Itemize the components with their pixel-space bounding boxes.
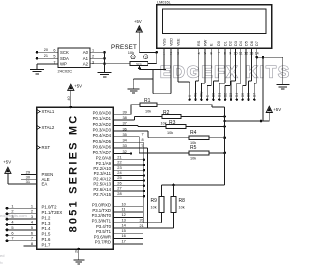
wire P0.6 down	[113, 147, 148, 149]
svg-text:D7: D7	[253, 93, 257, 97]
svg-text:P2.7/A15: P2.7/A15	[93, 192, 111, 197]
wire P2.5	[113, 185, 144, 187]
wire A1	[90, 57, 105, 59]
svg-text:2: 2	[31, 209, 33, 214]
svg-text:24C02C: 24C02C	[58, 69, 73, 74]
svg-text:R3: R3	[169, 120, 176, 126]
svg-text:16: 16	[122, 233, 126, 238]
wire VEE drop	[177, 48, 179, 82]
wire LCD D2 drop	[229, 48, 231, 85]
pot pin 1 circled	[131, 55, 135, 59]
svg-text:P1.2: P1.2	[42, 215, 51, 220]
svg-text:3: 3	[145, 55, 147, 59]
svg-text:35: 35	[123, 132, 127, 137]
wire P1.2	[7, 218, 37, 220]
wire P3.1	[113, 211, 143, 213]
svg-text:R1: R1	[144, 98, 151, 104]
svg-text:1: 1	[11, 203, 13, 208]
svg-text:10k: 10k	[145, 109, 151, 113]
svg-text:15: 15	[122, 228, 126, 233]
svg-text:E: E	[205, 95, 209, 97]
svg-text:P0.4/AD4: P0.4/AD4	[93, 133, 112, 138]
svg-text:EDGEFX KITS: EDGEFX KITS	[160, 64, 291, 82]
ground A pins	[98, 72, 112, 74]
svg-text:9: 9	[142, 143, 144, 147]
wire A0	[90, 51, 105, 53]
svg-text:D2: D2	[229, 41, 233, 46]
svg-text:33: 33	[123, 143, 127, 148]
svg-text:P0.7/AD7: P0.7/AD7	[93, 150, 112, 155]
wire P2.2	[113, 169, 144, 171]
wire A-common vertical	[104, 52, 106, 72]
wire LCD D5 drop	[245, 48, 247, 85]
bus vertical right	[224, 107, 226, 185]
svg-text:P1.4: P1.4	[42, 226, 51, 231]
svg-text:D2: D2	[223, 93, 227, 97]
wire pot right	[148, 63, 157, 65]
wire P1.0	[7, 207, 37, 209]
svg-text:7: 7	[11, 236, 13, 241]
svg-text:8: 8	[31, 241, 33, 246]
wire PSEN	[21, 174, 37, 176]
wire LCD D3 drop	[235, 48, 237, 81]
svg-text:RST: RST	[42, 145, 51, 150]
svg-text:A2: A2	[83, 62, 89, 67]
svg-text:28: 28	[117, 191, 121, 196]
wire ALE	[21, 178, 37, 180]
svg-text:20: 20	[44, 48, 48, 52]
svg-text:D0: D0	[217, 41, 221, 46]
wire R9 top	[161, 185, 163, 196]
svg-text:31: 31	[26, 179, 30, 184]
svg-text:XTAL1: XTAL1	[42, 109, 55, 114]
svg-text:10k: 10k	[151, 206, 157, 210]
svg-text:39: 39	[123, 109, 127, 114]
wire P2.3	[113, 174, 144, 176]
wire WP to ground	[37, 63, 58, 65]
svg-text:RW: RW	[203, 39, 207, 46]
svg-text:8051 SERIES MC: 8051 SERIES MC	[68, 114, 80, 233]
svg-text:7: 7	[142, 132, 144, 136]
wire P0.7 stub	[113, 153, 131, 155]
wire D7 node	[255, 56, 258, 59]
svg-text:21: 21	[140, 224, 144, 228]
wire R8 top	[173, 185, 175, 196]
wire P3.5	[113, 232, 143, 234]
wire VDD down	[170, 48, 172, 94]
wire bus to R9 R8	[162, 184, 225, 186]
clock arrow	[37, 146, 40, 150]
wire to top right ground	[263, 56, 283, 58]
wire P1.7	[24, 245, 37, 247]
wire P2.1	[113, 164, 144, 166]
svg-text:P3.5/T1: P3.5/T1	[96, 229, 112, 234]
svg-text:12: 12	[122, 212, 126, 217]
svg-text:11: 11	[122, 207, 126, 212]
wire R8 bottom	[173, 213, 175, 229]
svg-text:38: 38	[123, 115, 127, 120]
svg-text:RS: RS	[197, 40, 201, 46]
pot body	[130, 62, 148, 66]
wire LCD D0 drop	[218, 48, 220, 81]
svg-text:R2: R2	[163, 110, 170, 116]
wire wiper to VSS line	[140, 69, 167, 71]
ground below 8051	[73, 259, 84, 261]
svg-text:P0.2/AD2: P0.2/AD2	[93, 122, 112, 127]
svg-text:D1: D1	[218, 93, 222, 97]
wire R2 to bus	[181, 116, 225, 118]
svg-text:R5: R5	[190, 145, 197, 151]
svg-text:D4: D4	[235, 93, 239, 97]
svg-text:6: 6	[31, 230, 33, 235]
op 8051 U1 body	[37, 107, 114, 249]
wire EA	[21, 183, 37, 185]
wire P2.0	[113, 159, 144, 161]
wire P0.3 to R4	[113, 130, 148, 132]
eeprom U2 24C02C body	[58, 48, 90, 68]
wire P3.2	[113, 216, 143, 218]
svg-text:10k: 10k	[179, 206, 185, 210]
LCD LM016L body	[157, 5, 272, 49]
svg-text:P0.3/AD3: P0.3/AD3	[93, 128, 112, 133]
wire LCD D7 drop	[256, 48, 258, 83]
svg-text:5: 5	[31, 225, 33, 230]
wire P1.6	[7, 240, 37, 242]
svg-text:P0.1/AD1: P0.1/AD1	[93, 116, 112, 121]
wire LCD RW drop	[204, 48, 206, 83]
svg-text:D7: D7	[255, 41, 259, 46]
wire P0.0 to R1	[113, 113, 131, 115]
wire P0.5 down	[113, 141, 143, 143]
svg-text:P0.0/AD0: P0.0/AD0	[93, 111, 112, 116]
svg-text:VEE: VEE	[176, 38, 180, 46]
svg-text:P3.7/RD: P3.7/RD	[95, 240, 111, 245]
svg-text:6: 6	[11, 230, 13, 235]
wire P3.0	[113, 206, 143, 208]
wire VSS down	[163, 48, 165, 70]
wire P1.4	[7, 229, 37, 231]
svg-text:D6: D6	[247, 93, 251, 97]
clock arrow	[37, 110, 40, 114]
wire SCK	[37, 51, 58, 53]
svg-text:D5: D5	[241, 93, 245, 97]
svg-text:A0: A0	[83, 50, 89, 55]
svg-text:XTAL2: XTAL2	[42, 125, 55, 130]
svg-text:D0: D0	[212, 93, 216, 97]
wire LCD D6 drop	[250, 48, 252, 81]
svg-text:P1.0/T2: P1.0/T2	[42, 205, 58, 210]
svg-text:ed: ed	[0, 253, 4, 258]
svg-text:+5V: +5V	[273, 107, 281, 112]
svg-text:D4: D4	[239, 41, 243, 46]
svg-text:P1.3: P1.3	[42, 221, 51, 226]
svg-text:VDD: VDD	[169, 38, 173, 46]
wire P2.6	[113, 190, 144, 192]
wire P3.6	[113, 238, 143, 240]
svg-text:D6: D6	[250, 41, 254, 46]
wire to VDD bottom	[153, 93, 171, 95]
svg-text:D3: D3	[229, 93, 233, 97]
wire P0.2 to R3	[113, 125, 138, 127]
wire SDA	[37, 57, 58, 59]
svg-text:2: 2	[11, 209, 13, 214]
svg-text:EA: EA	[42, 182, 48, 187]
svg-text:R9: R9	[151, 198, 158, 204]
wire R9 bottom	[161, 213, 163, 223]
pot wiper arrow	[138, 66, 142, 70]
svg-text:fx: fx	[0, 261, 3, 265]
wire P3.4 to R8	[113, 227, 174, 229]
wire LCD RS drop	[198, 48, 200, 81]
svg-text:WP: WP	[60, 62, 67, 67]
svg-text:P1.7: P1.7	[42, 242, 51, 247]
wire P1.1	[7, 213, 37, 215]
ground below pot	[132, 79, 134, 89]
svg-text:A1: A1	[83, 56, 89, 61]
svg-text:P0.5/AD5: P0.5/AD5	[93, 139, 112, 144]
wire P3.3 to R9	[113, 222, 162, 224]
wire +5V to pot terminal 3	[138, 32, 140, 53]
svg-text:P3.0/RXD: P3.0/RXD	[92, 203, 111, 208]
svg-text:1: 1	[132, 55, 134, 59]
svg-text:1: 1	[31, 203, 33, 208]
+5V right	[266, 106, 272, 112]
svg-text:P3.3/INT1: P3.3/INT1	[92, 219, 112, 224]
ground top right	[276, 84, 289, 86]
wire LCD E drop	[210, 48, 212, 85]
clock arrow	[37, 126, 40, 130]
svg-text:SCK: SCK	[60, 50, 69, 55]
wire P1.3	[7, 224, 37, 226]
pot pin 3 circled	[144, 55, 148, 59]
wire right vertical to +5V line	[262, 57, 264, 121]
wire +5V to EA	[7, 173, 9, 184]
wire GND pin 20	[78, 249, 80, 260]
ground below WP	[30, 69, 44, 71]
svg-text:P3.6/WR: P3.6/WR	[94, 234, 111, 239]
svg-text:10k: 10k	[167, 131, 173, 135]
svg-text:7: 7	[31, 236, 33, 241]
svg-text:3: 3	[31, 214, 33, 219]
wire junction down to ground bracket	[152, 70, 154, 94]
svg-text:50%: 50%	[136, 62, 142, 66]
wire +5V to pin 40	[70, 90, 72, 107]
svg-text:P3.4/T0: P3.4/T0	[96, 224, 112, 229]
svg-text:P1.1/T2EX: P1.1/T2EX	[42, 210, 63, 215]
svg-text:P3.2/INT0: P3.2/INT0	[92, 213, 112, 218]
wire pot left to A2/ground node	[105, 63, 131, 65]
svg-text:17: 17	[122, 239, 126, 244]
svg-text:37: 37	[123, 121, 127, 126]
svg-text:RS: RS	[194, 93, 198, 97]
svg-text:R4: R4	[190, 130, 197, 136]
svg-text:P0.6/AD6: P0.6/AD6	[93, 144, 112, 149]
svg-text:5: 5	[11, 225, 13, 230]
svg-text:R8: R8	[179, 198, 186, 204]
svg-text:D5: D5	[245, 41, 249, 46]
wire R5 to bus	[209, 152, 225, 154]
svg-text:10k: 10k	[190, 156, 196, 160]
svg-text:36: 36	[123, 126, 127, 131]
svg-text:21: 21	[44, 54, 48, 58]
svg-text:D3: D3	[234, 41, 238, 46]
svg-text:P3.1/TXD: P3.1/TXD	[92, 208, 111, 213]
svg-text:P1.5: P1.5	[42, 232, 51, 237]
svg-text:D1: D1	[223, 41, 227, 46]
wire R3 to bus	[186, 126, 225, 128]
svg-text:+5V: +5V	[134, 19, 142, 24]
wire bus to +5V	[225, 120, 270, 122]
wire P0.1 to R2	[113, 119, 135, 121]
wire R4 to bus	[209, 137, 225, 139]
wire LCD D1 drop	[224, 48, 226, 83]
svg-text:SDA: SDA	[60, 56, 69, 61]
wire A2	[90, 63, 105, 65]
svg-text:13: 13	[122, 217, 126, 222]
svg-text:3: 3	[11, 214, 13, 219]
wire P0.4 to R5	[113, 136, 139, 138]
wire R1 to bus	[157, 104, 212, 106]
svg-text:+5V: +5V	[3, 160, 11, 165]
wire P1.5	[7, 234, 37, 236]
svg-text:VSS: VSS	[162, 38, 166, 46]
wire P2.7	[113, 195, 144, 197]
wire P3.7	[113, 243, 143, 245]
LCD display window	[163, 9, 267, 34]
wire P2.4	[113, 180, 144, 182]
svg-text:8: 8	[142, 138, 144, 142]
svg-text:P1.6: P1.6	[42, 237, 51, 242]
svg-text:RW: RW	[200, 92, 204, 97]
wire LCD D4 drop	[240, 48, 242, 83]
svg-text:+5V: +5V	[74, 84, 82, 89]
